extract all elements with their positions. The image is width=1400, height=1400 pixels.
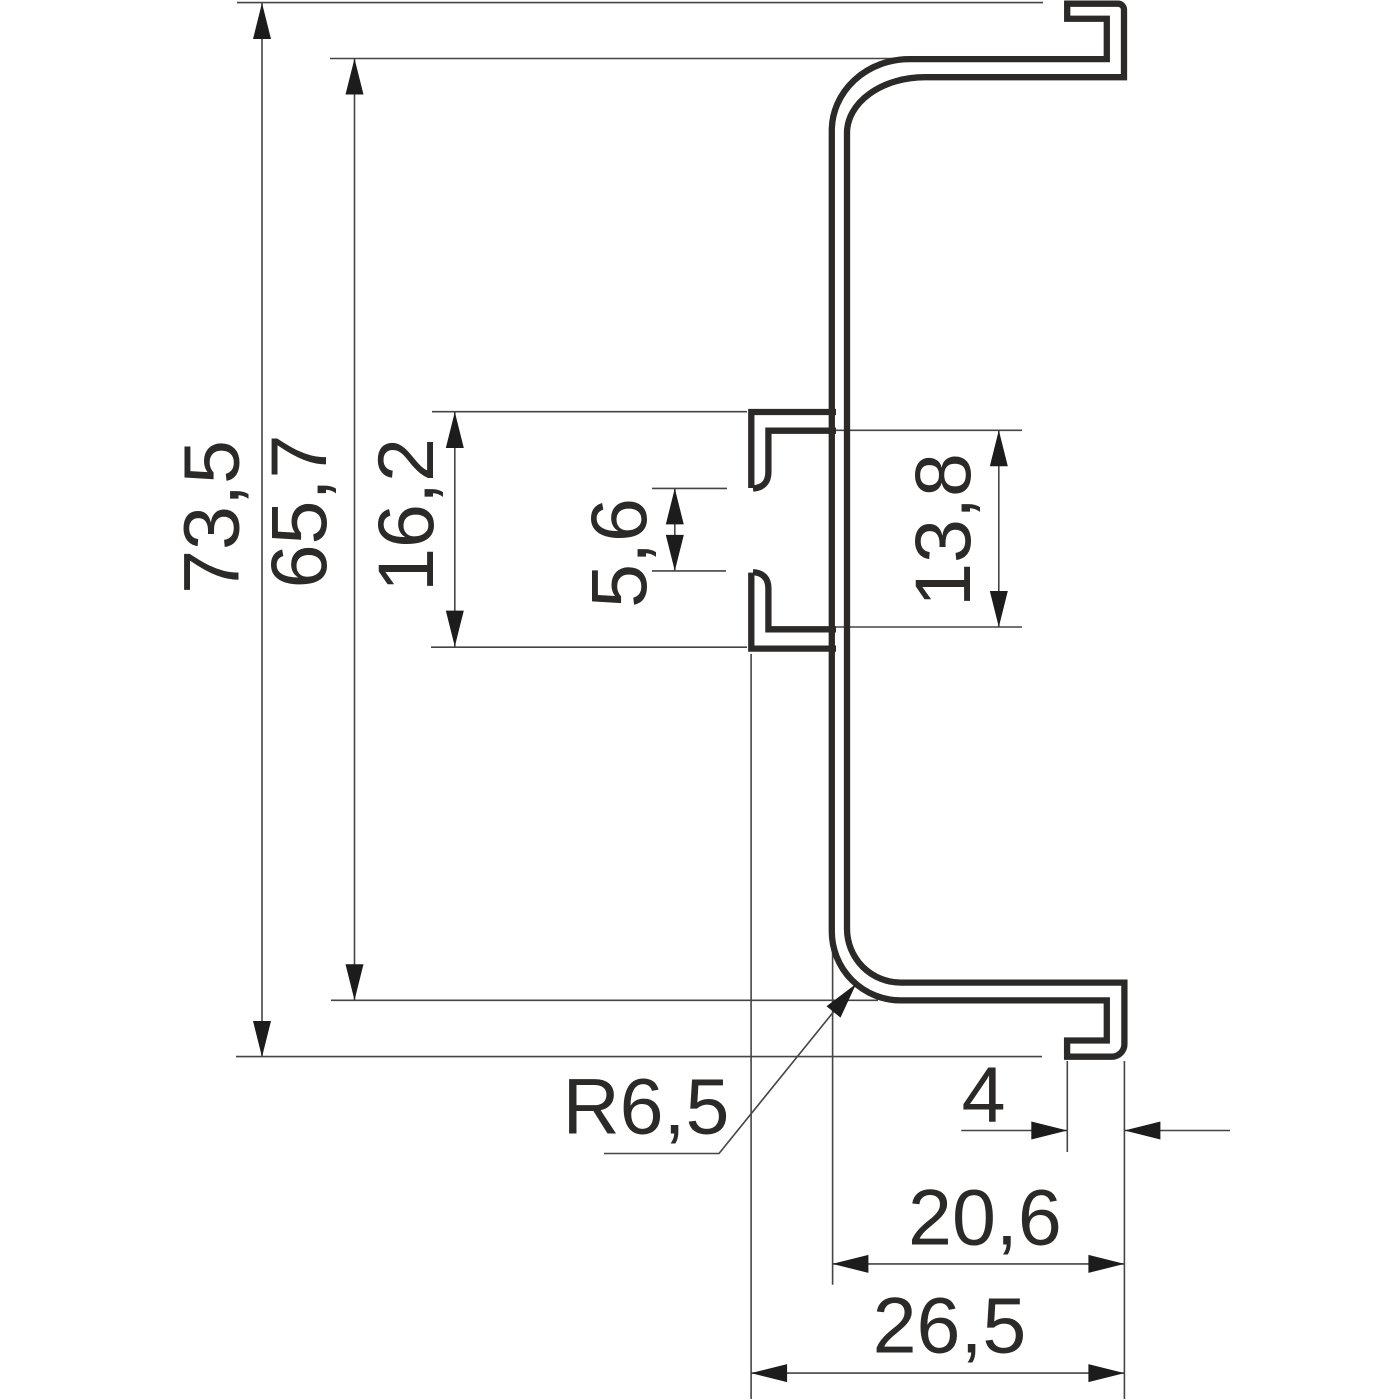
- extension line vertical left for 4: [1066, 1061, 1068, 1152]
- arrow 16,2 top: [446, 412, 464, 448]
- dimension line 5,6: [674, 488, 676, 571]
- arrow 65,7 bottom: [346, 964, 364, 1000]
- svg-text:26,5: 26,5: [873, 1281, 1027, 1370]
- extension line top for 73,5: [237, 2, 1043, 4]
- dimension texts: [167, 435, 1062, 1370]
- lower clip inner wall with curved tip: [753, 572, 836, 629]
- arrow 26,5 left: [751, 1364, 787, 1382]
- arrow 5,6 top: [666, 488, 684, 524]
- svg-text:16,2: 16,2: [361, 438, 450, 592]
- arrow 13,8 top: [990, 430, 1008, 466]
- svg-text:R6,5: R6,5: [563, 1062, 730, 1151]
- main profile outline: [832, 4, 1125, 1057]
- arrow 4 right (pointing left): [1124, 1122, 1160, 1140]
- arrow R6,5 leader: [827, 984, 857, 1018]
- leader line R6,5: [604, 984, 856, 1154]
- upper clip outer wall: [751, 412, 836, 488]
- arrow 16,2 bottom: [446, 611, 464, 647]
- svg-text:4: 4: [962, 1050, 1006, 1139]
- extension line bottom for 16,2: [431, 646, 747, 648]
- arrow 73,5 bottom: [253, 1021, 271, 1057]
- arrow 65,7 top: [346, 59, 364, 95]
- arrow 20,6 left: [832, 1255, 868, 1273]
- extension line top for 5,6: [652, 487, 727, 489]
- dimension line 4 right tail: [1124, 1130, 1230, 1132]
- lower clip outer wall: [751, 573, 836, 649]
- extension line top for 13,8: [836, 429, 1022, 431]
- extension line vertical left for 20,6: [832, 935, 834, 1285]
- dimension line 73,5: [261, 3, 263, 1057]
- arrow 20,6 right: [1088, 1255, 1124, 1273]
- svg-text:20,6: 20,6: [908, 1172, 1062, 1261]
- extension line bottom for 73,5: [236, 1056, 1042, 1058]
- arrow 4 left (pointing right): [1031, 1122, 1067, 1140]
- arrow 26,5 right: [1088, 1364, 1124, 1382]
- svg-text:5,6: 5,6: [574, 498, 663, 608]
- extension line bottom for 13,8: [836, 626, 1022, 628]
- svg-text:13,8: 13,8: [898, 453, 987, 607]
- dimension line 26,5: [751, 1372, 1124, 1374]
- dimension line 20,6: [832, 1263, 1124, 1265]
- extension line top for 16,2: [432, 411, 747, 413]
- arrow 73,5 top: [253, 3, 271, 39]
- dimension line 13,8: [998, 430, 1000, 627]
- dimension arrows: [253, 3, 1160, 1382]
- extension line bottom for 5,6: [652, 570, 726, 572]
- extension line bottom for 65,7: [331, 999, 878, 1001]
- dimension line 65,7: [354, 59, 356, 1001]
- thin extension and dimension lines: [236, 3, 1230, 1399]
- svg-text:73,5: 73,5: [167, 440, 256, 594]
- extension line vertical left for 26,5: [750, 654, 752, 1399]
- dimension line 16,2: [454, 412, 456, 647]
- dimension line 4 left tail: [961, 1130, 1067, 1132]
- extension line top for 65,7: [330, 58, 906, 60]
- upper clip inner wall with curved tip: [753, 431, 836, 489]
- extension line vertical right shared: [1123, 1061, 1125, 1399]
- arrow 5,6 bottom: [666, 535, 684, 571]
- arrow 13,8 bottom: [990, 591, 1008, 627]
- svg-text:65,7: 65,7: [254, 435, 343, 589]
